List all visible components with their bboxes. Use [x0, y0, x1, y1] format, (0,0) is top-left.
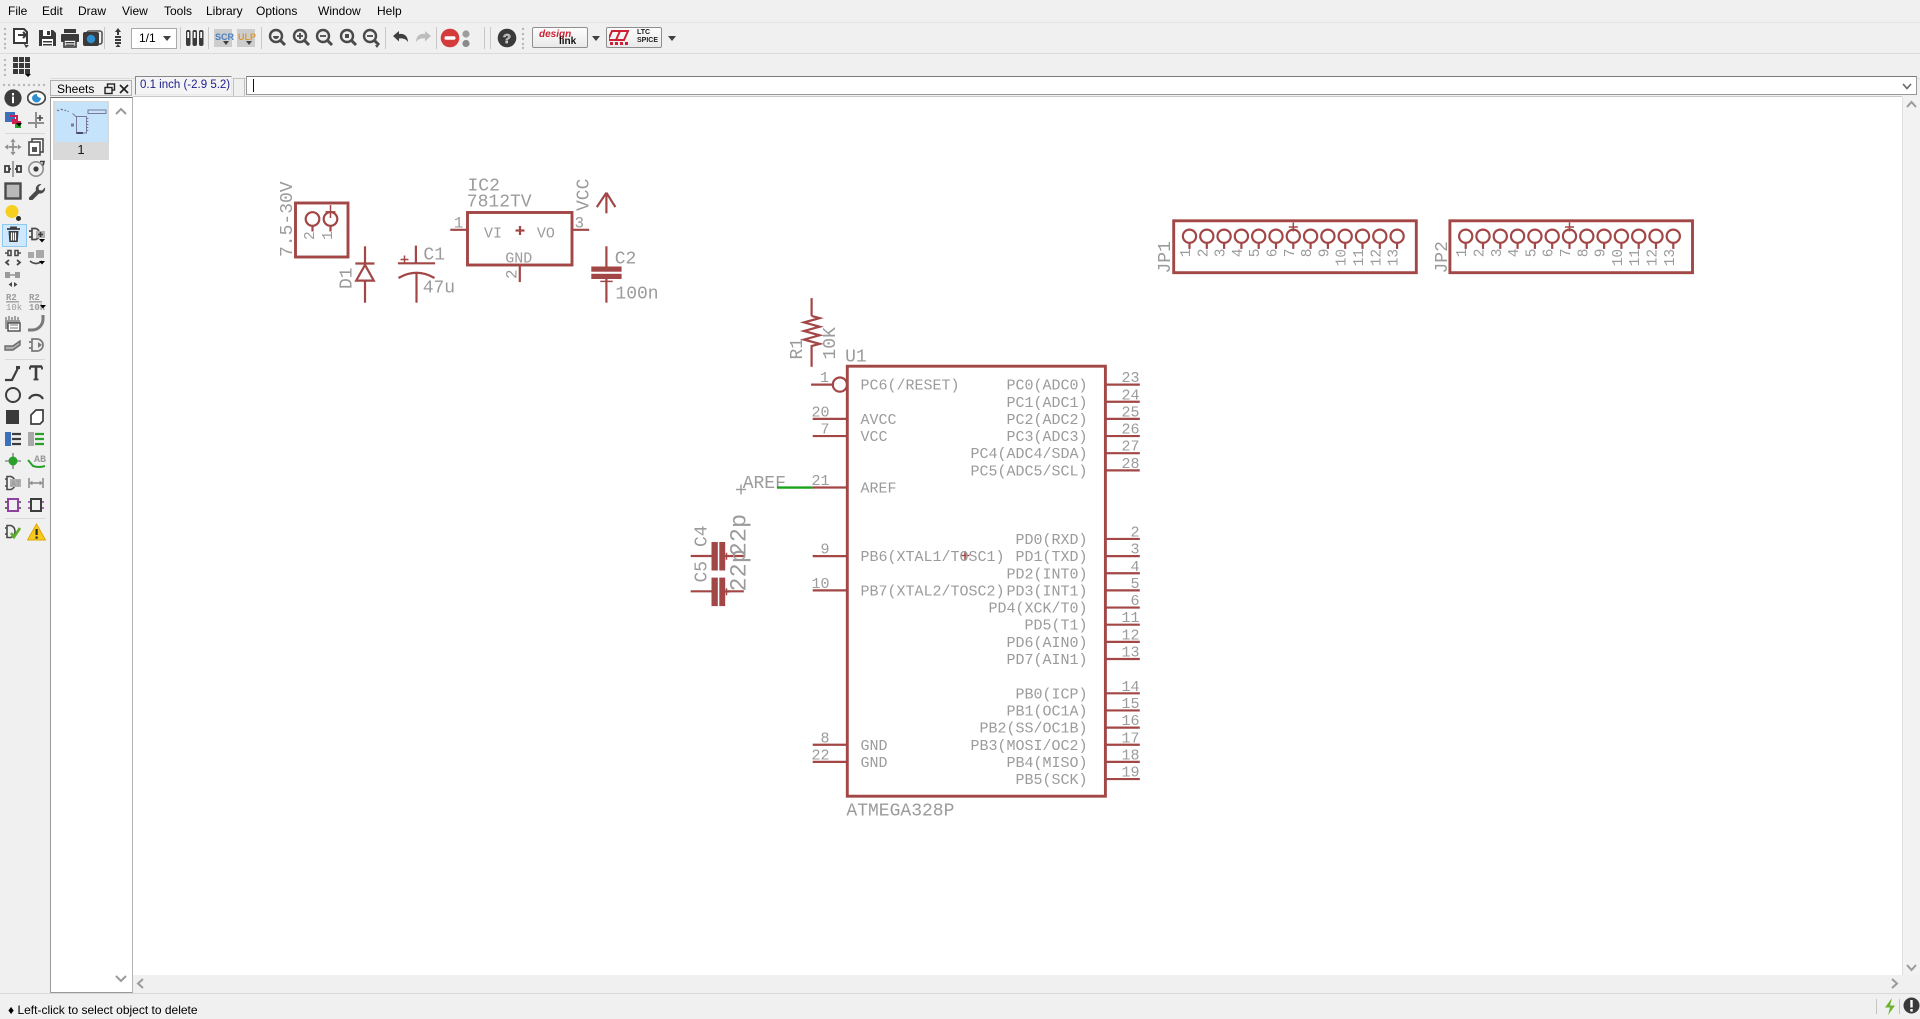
svg-text:5: 5 — [1130, 576, 1139, 593]
pin header JP1 — [1174, 221, 1417, 273]
IC U1 ATMEGA328P body — [845, 347, 1105, 821]
junction tool — [4, 452, 23, 470]
svg-text:AT: AT — [11, 480, 21, 489]
svg-text:D1: D1 — [338, 267, 358, 289]
svg-text:28: 28 — [1121, 456, 1139, 473]
svg-text:10K: 10K — [821, 327, 841, 360]
horizontal scrollbar — [133, 975, 1902, 992]
vertical scrollbar — [1902, 97, 1920, 975]
svg-text:PD7(AIN1): PD7(AIN1) — [1006, 652, 1087, 669]
svg-text:PD5(T1): PD5(T1) — [1024, 618, 1087, 635]
svg-text:11: 11 — [1352, 249, 1368, 266]
svg-text:8: 8 — [820, 730, 829, 747]
svg-text:VI: VI — [484, 225, 502, 242]
svg-text:9: 9 — [820, 542, 829, 559]
JP1 pin 13 — [1387, 230, 1404, 267]
svg-text:PB2(SS/OC1B): PB2(SS/OC1B) — [979, 721, 1087, 738]
JP1 pin 7 — [1283, 223, 1300, 258]
label tool — [27, 452, 47, 470]
JP1 pin 4 — [1231, 230, 1248, 258]
svg-text:9: 9 — [1317, 249, 1333, 258]
svg-text:3: 3 — [1214, 249, 1230, 258]
replace tool — [27, 248, 47, 266]
U1 pin 7 VCC — [813, 422, 888, 447]
svg-text:6: 6 — [1542, 249, 1558, 258]
U1 pin 19 PB5(SCK) — [1015, 765, 1139, 790]
svg-text:3: 3 — [575, 215, 585, 233]
svg-text:12: 12 — [1121, 627, 1139, 644]
U1 pin 6 PD4(XCK/T0) — [988, 593, 1139, 618]
JP2 pin 8 — [1576, 230, 1593, 258]
svg-text:PB0(ICP): PB0(ICP) — [1015, 686, 1087, 703]
text tool — [27, 364, 46, 382]
svg-text:1: 1 — [820, 370, 829, 387]
U1 pin 26 PC3(ADC3) — [1006, 422, 1139, 447]
JP2 pin 3 — [1490, 230, 1507, 258]
svg-text:PC0(ADC0): PC0(ADC0) — [1006, 378, 1087, 395]
svg-text:AB: AB — [34, 455, 46, 466]
LTC SPICE button — [606, 27, 662, 48]
svg-text:100n: 100n — [615, 285, 658, 305]
svg-text:AREF: AREF — [861, 481, 897, 498]
svg-text:PB7(XTAL2/TOSC2): PB7(XTAL2/TOSC2) — [861, 583, 1005, 600]
svg-text:JP2: JP2 — [1433, 241, 1453, 273]
svg-text:12: 12 — [1369, 249, 1385, 266]
svg-text:19: 19 — [1121, 765, 1139, 782]
U1 pin 18 PB4(MISO) — [1006, 747, 1139, 772]
U1 pin 23 PC0(ADC0) — [1006, 370, 1139, 395]
svg-text:C4: C4 — [693, 525, 713, 547]
svg-text:3: 3 — [1490, 249, 1506, 258]
JP2 pin 10 — [1611, 230, 1628, 267]
drc tool — [27, 496, 46, 514]
sheets panel — [50, 80, 132, 993]
svg-text:8: 8 — [1300, 249, 1316, 258]
JP1 pin 5 — [1248, 230, 1265, 258]
JP1 pin 2 — [1196, 230, 1213, 258]
U1 pin 10 PB7 — [811, 576, 1004, 601]
left tool palette — [0, 78, 50, 993]
U1 pin 9 PB6 — [813, 542, 1005, 567]
svg-text:2: 2 — [1130, 524, 1139, 541]
capacitor C5 22p — [691, 549, 754, 606]
svg-text:PD6(AIN0): PD6(AIN0) — [1006, 635, 1087, 652]
svg-text:PC3(ADC3): PC3(ADC3) — [1006, 429, 1087, 446]
svg-text:1: 1 — [454, 215, 464, 233]
U1 pin 5 PD3(INT1) — [1006, 576, 1139, 601]
U1 pin 1 PC6(/RESET) — [811, 370, 959, 395]
U1 pin 21 AREF — [811, 473, 896, 498]
mirror tool — [4, 160, 23, 178]
circle tool — [4, 386, 23, 404]
U1 pin 16 PB2(SS/OC1B) — [979, 713, 1139, 738]
svg-text:PB6(XTAL1/TOSC1): PB6(XTAL1/TOSC1) — [861, 549, 1005, 566]
svg-text:PD1(TXD): PD1(TXD) — [1015, 549, 1087, 566]
svg-text:2: 2 — [303, 231, 319, 240]
add tool — [27, 226, 47, 244]
svg-text:ATMEGA328P: ATMEGA328P — [846, 802, 954, 822]
sheet 1 thumbnail — [53, 101, 109, 160]
svg-text:AVCC: AVCC — [861, 412, 897, 429]
erc tool — [4, 496, 23, 514]
svg-text:PD4(XCK/T0): PD4(XCK/T0) — [988, 601, 1087, 618]
diode D1 — [338, 246, 375, 302]
svg-text:7: 7 — [820, 422, 829, 439]
status bar — [0, 993, 1920, 1019]
U1 pin 4 PD2(INT0) — [1006, 559, 1139, 584]
show tool — [27, 89, 46, 107]
JP1 pin 8 — [1300, 230, 1317, 258]
svg-text:8: 8 — [1576, 249, 1592, 258]
U1 pin 11 PD5(T1) — [1024, 610, 1139, 635]
U1 pin 15 PB1(OC1A) — [1006, 696, 1139, 721]
U1 pin 27 PC4(ADC4/SDA) — [970, 439, 1139, 464]
svg-text:GND: GND — [505, 251, 532, 268]
U1 pin 24 PC1(ADC1) — [1006, 387, 1139, 412]
svg-text:GND: GND — [861, 755, 888, 772]
group tool — [4, 182, 23, 200]
svg-text:22p: 22p — [727, 549, 754, 591]
canvas with schematic — [133, 97, 1902, 975]
svg-text:3: 3 — [1130, 542, 1139, 559]
svg-text:VCC: VCC — [861, 429, 888, 446]
svg-text:PD2(INT0): PD2(INT0) — [1006, 566, 1087, 583]
svg-text:13: 13 — [1387, 249, 1403, 266]
voltage regulator IC2 7812TV — [450, 177, 589, 283]
svg-text:22: 22 — [811, 747, 829, 764]
U1 pin 8 GND — [813, 730, 888, 755]
svg-text:6: 6 — [1266, 249, 1282, 258]
svg-text:13: 13 — [1663, 249, 1679, 266]
svg-text:20: 20 — [811, 404, 829, 421]
toolbar row 1 — [0, 22, 1920, 53]
JP2 pin 12 — [1646, 230, 1663, 267]
split tool — [4, 336, 23, 354]
svg-text:16: 16 — [1121, 713, 1139, 730]
svg-text:PB5(SCK): PB5(SCK) — [1015, 772, 1087, 789]
svg-text:2: 2 — [503, 269, 521, 279]
JP2 pin 13 — [1663, 230, 1680, 267]
display tool — [4, 111, 24, 130]
toolbar row 2 — [0, 53, 1920, 79]
svg-text:PD0(RXD): PD0(RXD) — [1015, 532, 1087, 549]
svg-text:10k: 10k — [6, 303, 22, 310]
JP2 pin 7 — [1559, 223, 1576, 258]
arc tool — [27, 386, 46, 404]
command input — [246, 76, 1917, 95]
svg-text:PD3(INT1): PD3(INT1) — [1006, 583, 1087, 600]
svg-text:25: 25 — [1121, 404, 1139, 421]
rotate tool — [27, 160, 46, 178]
svg-text:11: 11 — [1121, 610, 1139, 627]
attribute tool — [4, 474, 23, 492]
svg-text:23: 23 — [1121, 370, 1139, 387]
svg-text:14: 14 — [1121, 679, 1139, 696]
svg-text:17: 17 — [1121, 730, 1139, 747]
net tool — [27, 430, 46, 448]
move tool — [4, 138, 23, 156]
menu bar — [0, 0, 1920, 22]
designlink button — [532, 27, 588, 48]
JP2 pin 6 — [1542, 230, 1559, 258]
JP2 pin 1 — [1455, 230, 1472, 258]
svg-text:47u: 47u — [423, 278, 455, 298]
JP2 pin 9 — [1594, 230, 1611, 258]
capacitor C4 22p — [691, 514, 754, 571]
U1 pin 14 PB0(ICP) — [1015, 679, 1139, 704]
svg-text:2: 2 — [1473, 249, 1489, 258]
svg-text:7812TV: 7812TV — [467, 192, 532, 212]
svg-text:24: 24 — [1121, 387, 1139, 404]
U1 pin 20 AVCC — [811, 404, 896, 429]
svg-text:10: 10 — [1611, 249, 1627, 266]
U1 pin 3 PD1(TXD) — [1015, 542, 1139, 567]
U1 pin 22 GND — [811, 747, 887, 772]
svg-text:10: 10 — [811, 576, 829, 593]
JP1 pin 1 — [1179, 230, 1196, 258]
JP2 pin 2 — [1473, 230, 1490, 258]
svg-text:5: 5 — [1248, 249, 1264, 258]
net label AREF — [736, 474, 786, 495]
errors tool — [4, 523, 23, 541]
svg-text:1: 1 — [1179, 249, 1195, 258]
svg-text:?: ? — [503, 33, 511, 48]
JP2 pin 4 — [1507, 230, 1524, 258]
svg-text:7.5-30V: 7.5-30V — [278, 181, 298, 257]
svg-text:VCC: VCC — [575, 178, 595, 211]
U1 pin 12 PD6(AIN0) — [1006, 627, 1139, 652]
svg-text:PC5(ADC5/SCL): PC5(ADC5/SCL) — [970, 463, 1087, 480]
svg-text:1: 1 — [1455, 249, 1471, 258]
svg-text:7: 7 — [1559, 249, 1575, 258]
svg-text:GND: GND — [861, 738, 888, 755]
connector X1 7.5-30V — [278, 181, 348, 257]
U1 pin 25 PC2(ADC2) — [1006, 404, 1139, 429]
svg-text:9: 9 — [1594, 249, 1610, 258]
svg-text:6: 6 — [1130, 593, 1139, 610]
svg-text:PC4(ADC4/SDA): PC4(ADC4/SDA) — [970, 446, 1087, 463]
paste tool — [4, 204, 23, 222]
svg-text:1: 1 — [321, 231, 337, 240]
polygon tool — [27, 408, 46, 426]
svg-text:11: 11 — [1628, 249, 1644, 266]
bus tool — [4, 430, 23, 448]
svg-text:C5: C5 — [693, 561, 713, 583]
svg-text:15: 15 — [1121, 696, 1139, 713]
U1 pin 13 PD7(AIN1) — [1006, 645, 1139, 670]
svg-text:4: 4 — [1231, 249, 1247, 258]
JP1 pin 10 — [1335, 230, 1352, 267]
svg-text:PB4(MISO): PB4(MISO) — [1006, 755, 1087, 772]
capacitor C2 100n — [591, 246, 658, 304]
warning icon — [27, 523, 47, 541]
svg-text:JP1: JP1 — [1156, 241, 1176, 273]
smash tool — [4, 314, 23, 332]
wire net AREF — [777, 486, 813, 488]
wire tool — [4, 364, 23, 382]
JP1 pin 3 — [1214, 230, 1231, 258]
svg-text:4: 4 — [1130, 559, 1139, 576]
svg-text:2: 2 — [1196, 249, 1212, 258]
svg-text:PB3(MOSI/OC2): PB3(MOSI/OC2) — [970, 738, 1087, 755]
info tool — [4, 89, 23, 107]
pin header JP2 — [1450, 221, 1693, 273]
svg-text:10: 10 — [1335, 249, 1351, 266]
svg-text:PB1(OC1A): PB1(OC1A) — [1006, 703, 1087, 720]
JP1 pin 9 — [1317, 230, 1334, 258]
svg-text:21: 21 — [811, 473, 829, 490]
svg-text:U1: U1 — [845, 347, 867, 367]
svg-text:PC1(ADC1): PC1(ADC1) — [1006, 395, 1087, 412]
copy tool — [27, 138, 46, 156]
U1 pin 28 PC5(ADC5/SCL) — [970, 456, 1139, 481]
delete tool (active) — [2, 224, 27, 247]
VCC supply symbol — [575, 178, 616, 213]
invoke tool — [27, 336, 46, 354]
value tool — [27, 292, 47, 310]
JP2 pin 11 — [1628, 230, 1645, 267]
svg-text:18: 18 — [1121, 747, 1139, 764]
rect tool — [4, 408, 23, 426]
resistor R1 10K — [788, 298, 841, 367]
miter tool — [27, 314, 46, 332]
svg-text:13: 13 — [1121, 645, 1139, 662]
change tool — [27, 182, 46, 200]
mark tool — [27, 111, 46, 130]
svg-text:26: 26 — [1121, 422, 1139, 439]
svg-text:C2: C2 — [615, 250, 637, 270]
svg-text:VO: VO — [537, 225, 555, 242]
svg-text:PC6(/RESET): PC6(/RESET) — [861, 378, 960, 395]
svg-text:AREF: AREF — [743, 474, 786, 494]
svg-text:PC2(ADC2): PC2(ADC2) — [1006, 412, 1087, 429]
JP2 pin 5 — [1524, 230, 1541, 258]
svg-text:7: 7 — [1283, 249, 1299, 258]
JP1 pin 11 — [1352, 230, 1369, 267]
svg-text:4: 4 — [1507, 249, 1523, 258]
JP1 pin 12 — [1369, 230, 1386, 267]
svg-text:R1: R1 — [788, 338, 808, 360]
capacitor C1 47u — [398, 245, 455, 302]
name tool — [4, 292, 23, 310]
U1 pin 17 PB3(MOSI/OC2) — [970, 730, 1139, 755]
svg-text:27: 27 — [1121, 439, 1139, 456]
svg-text:C1: C1 — [423, 245, 445, 265]
svg-text:12: 12 — [1646, 249, 1662, 266]
pinswap tool — [4, 248, 23, 266]
dimension tool — [27, 474, 46, 492]
coordinate display — [135, 76, 232, 95]
U1 pin 2 PD0(RXD) — [1015, 524, 1139, 549]
JP1 pin 6 — [1266, 230, 1283, 258]
gateswap tool — [4, 270, 23, 288]
svg-text:5: 5 — [1524, 249, 1540, 258]
